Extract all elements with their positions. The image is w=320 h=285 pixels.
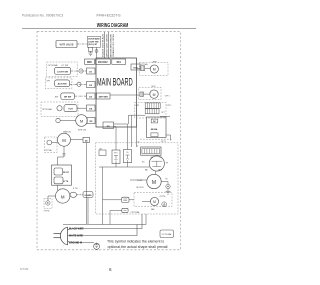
optional sample box — [160, 230, 174, 238]
wire water valve to door block — [77, 43, 88, 45]
optional box motor mid right — [139, 87, 161, 99]
svg-text:M: M — [153, 200, 156, 204]
connector D6 board lower left — [83, 137, 90, 142]
strain tick — [63, 154, 66, 156]
wire T1 to fan — [129, 199, 134, 201]
compressor compartment dashed box — [96, 143, 179, 214]
wire row5 — [60, 120, 75, 122]
svg-text:BLACK BLK BLACK: BLACK BLK BLACK — [101, 33, 104, 57]
lamp node row1 — [79, 69, 83, 73]
power plug P1 — [60, 227, 67, 245]
connector J1 — [122, 208, 128, 212]
svg-text:OPT'NL: OPT'NL — [159, 196, 165, 198]
defrost heater R1 — [54, 168, 63, 175]
node on door block wire — [95, 50, 98, 53]
wire row4 — [77, 107, 87, 109]
connector T1 — [122, 197, 130, 202]
thermostat bulb oval — [70, 192, 77, 197]
wire D7 to lamp — [145, 68, 151, 70]
svg-text:(N.O.) 2P: (N.O.) 2P — [88, 44, 97, 46]
svg-text:OPT'L: OPT'L — [165, 95, 170, 97]
svg-text:BROWN BRN BROWN: BROWN BRN BROWN — [110, 33, 112, 57]
light switch S1 — [55, 67, 71, 74]
plug prong 2 — [54, 237, 61, 239]
svg-text:LIGHT SW: LIGHT SW — [88, 41, 98, 43]
wire y224 bus — [63, 214, 146, 225]
connector D1 board left — [87, 68, 96, 74]
connector D10 — [131, 64, 140, 70]
ground circle cond fan — [162, 202, 167, 207]
svg-text:ALM SW: ALM SW — [58, 83, 68, 86]
terminal circle — [166, 184, 170, 188]
wire cluster right — [160, 115, 170, 117]
aux box — [99, 150, 106, 156]
svg-text:FFHH-EC22T-S: FFHH-EC22T-S — [97, 13, 122, 17]
wire row2 — [70, 83, 87, 85]
plug prong 1 — [54, 232, 61, 234]
svg-text:MTR ON: MTR ON — [78, 130, 86, 132]
compressor motor M4 — [147, 174, 161, 188]
wire sensor to right — [110, 94, 140, 96]
wire J1 left — [110, 211, 122, 225]
svg-text:BLACK WIRE: BLACK WIRE — [69, 228, 84, 231]
svg-text:TCH: TCH — [68, 109, 73, 111]
svg-text:DNC: DNC — [87, 62, 92, 64]
connector D3 board left — [87, 93, 96, 99]
wire motor to ground box — [48, 196, 56, 201]
svg-text:OPTIONAL: OPTIONAL — [48, 64, 59, 67]
svg-text:WTR VALVE: WTR VALVE — [59, 44, 73, 47]
wire overload to compressor — [155, 171, 157, 174]
connector D5 board left — [87, 118, 95, 124]
svg-text:M: M — [62, 138, 66, 143]
connector D14 board top — [85, 59, 95, 64]
motor M6 bottom left — [56, 189, 70, 203]
motor M1 row5 — [76, 115, 88, 127]
pin header 2 — [145, 109, 159, 114]
wire row3 — [75, 95, 87, 97]
defrost thermostat — [54, 177, 63, 184]
guard box — [83, 192, 93, 198]
header rule — [22, 27, 196, 29]
optional box light switch — [47, 62, 78, 77]
ground under valve symbol — [88, 51, 92, 56]
svg-text:SW: SW — [55, 96, 58, 98]
svg-text:DOOR AND: DOOR AND — [88, 38, 100, 41]
switch row2 — [55, 80, 70, 87]
door and light switch block — [88, 36, 101, 47]
svg-text:M: M — [61, 194, 65, 199]
optional ground box — [44, 199, 52, 209]
wire top vertical 1 — [104, 32, 106, 58]
connector D9 board bottom — [103, 122, 114, 129]
svg-text:6: 6 — [109, 267, 112, 272]
svg-text:Publication No. 0908079C3: Publication No. 0908079C3 — [22, 14, 63, 18]
svg-text:NB MA: NB MA — [151, 128, 158, 131]
svg-text:OPTIONAL: OPTIONAL — [42, 108, 53, 111]
cond fan motor M5 — [150, 197, 158, 205]
wire bus right of board — [131, 115, 133, 147]
svg-text:MTR: MTR — [152, 86, 157, 88]
valve symbol below block — [88, 47, 92, 51]
wire board to D7 — [137, 68, 141, 70]
svg-text:OPTIONAL: OPTIONAL — [131, 211, 140, 214]
ground right — [166, 189, 171, 194]
main board U1 — [96, 58, 137, 127]
wire relay pins down — [116, 163, 128, 167]
wire compressor right / TH — [161, 182, 168, 185]
wire fan down to defrost — [58, 146, 65, 165]
svg-text:WHITE WHT WHITE: WHITE WHT WHITE — [106, 33, 108, 57]
wire D8 to motor — [144, 93, 150, 95]
svg-text:S TH: S TH — [73, 188, 78, 190]
svg-text:WHITE WIRE: WHITE WIRE — [69, 236, 84, 238]
wire cond fan left — [142, 201, 150, 203]
svg-text:DR SW: DR SW — [64, 97, 72, 99]
relay OL — [124, 150, 132, 163]
wire timer right — [166, 135, 171, 141]
wire D9 to relay 2 — [114, 124, 128, 150]
svg-text:optional,the actual shape shal: optional,the actual shape shall prevail — [108, 245, 168, 249]
svg-text:This symbol indicates the elem: This symbol indicates the element is — [107, 240, 164, 244]
wire door block to board — [96, 47, 98, 58]
svg-text:M: M — [153, 68, 156, 72]
optional box control cluster — [135, 102, 166, 118]
wire cluster left — [129, 114, 146, 116]
wire T1 left — [103, 167, 122, 225]
dashed wire below timer — [140, 138, 172, 140]
svg-text:D11: D11 — [117, 61, 122, 64]
svg-text:OPTIONAL: OPTIONAL — [162, 233, 173, 236]
motor M3 — [150, 90, 158, 98]
wire green — [68, 241, 95, 243]
svg-text:GUARD: GUARD — [84, 194, 92, 197]
connector D4 board left — [87, 105, 96, 111]
node row2 — [77, 82, 81, 86]
ground main — [94, 243, 100, 249]
switch row4 — [64, 105, 77, 112]
wire fan node — [52, 142, 58, 144]
svg-text:COMP: COMP — [137, 180, 143, 182]
wire D9 to relay 1 — [114, 127, 117, 151]
svg-text:MOTOR: MOTOR — [137, 187, 145, 189]
wire guard down — [87, 198, 89, 225]
neutral bus wire — [85, 143, 87, 225]
wire oval to guard — [77, 194, 83, 196]
defrost assembly outer box — [52, 165, 72, 185]
svg-text:OL: OL — [126, 152, 128, 154]
connector D8 — [140, 92, 144, 96]
optional box row4 — [41, 102, 78, 117]
wire row1 — [71, 70, 87, 72]
svg-text:DEF SEN: DEF SEN — [99, 96, 109, 98]
svg-text:LIGHT SW: LIGHT SW — [57, 71, 69, 73]
optional box row2 — [45, 78, 72, 89]
pin header 1 — [145, 103, 160, 109]
connector D7 — [141, 66, 145, 71]
svg-text:LAMP: LAMP — [152, 60, 158, 63]
svg-text:ORANGE OR ORNG: ORANGE OR ORNG — [112, 34, 115, 57]
svg-text:MAIN BOARD: MAIN BOARD — [97, 76, 133, 88]
optional box cond fan — [134, 193, 172, 207]
wire top vertical 2 — [108, 32, 110, 58]
node fan — [47, 140, 52, 145]
timer box — [147, 117, 167, 138]
svg-text:D13 D12: D13 D12 — [98, 61, 108, 64]
wire black — [68, 214, 143, 230]
optional box fan — [45, 137, 58, 153]
connector D13/D12 board top — [96, 59, 111, 64]
svg-text:OPT'NAL: OPT'NAL — [45, 149, 52, 152]
water valve V1 — [56, 41, 77, 48]
wire fan to D6 — [71, 139, 84, 141]
heater box — [141, 147, 161, 155]
connector D2 board left — [87, 82, 96, 88]
bus wire across cluster — [99, 166, 150, 168]
svg-text:OPT'NL: OPT'NL — [44, 211, 50, 213]
lamp L1 — [150, 65, 158, 73]
wire board to pin header — [128, 115, 130, 124]
optional box lamp top right — [140, 62, 169, 75]
connector D11 board top — [112, 59, 126, 64]
relay PTC — [112, 150, 120, 164]
svg-text:M: M — [80, 118, 83, 123]
wire white — [68, 225, 138, 236]
svg-text:6/7/09: 6/7/09 — [20, 267, 29, 271]
svg-text:FAN/ON: FAN/ON — [63, 130, 71, 133]
wire board edge down — [136, 127, 138, 147]
svg-text:OPT'L: OPT'L — [167, 105, 172, 107]
sensor box on board — [97, 93, 111, 99]
node row5 — [56, 118, 60, 122]
svg-text:D TS: D TS — [64, 181, 69, 183]
svg-text:M: M — [152, 180, 156, 186]
svg-text:M: M — [153, 93, 156, 97]
wire compressor left — [130, 179, 147, 181]
wire defrost to motor — [57, 185, 59, 190]
thermostat node row4 — [57, 106, 62, 111]
outer dashed border of diagram — [37, 32, 181, 250]
svg-text:DF HT: DF HT — [63, 172, 70, 174]
svg-text:GROUND W: GROUND W — [69, 243, 83, 245]
overload protector circle — [149, 156, 164, 171]
svg-text:LIT SW: LIT SW — [62, 65, 69, 67]
